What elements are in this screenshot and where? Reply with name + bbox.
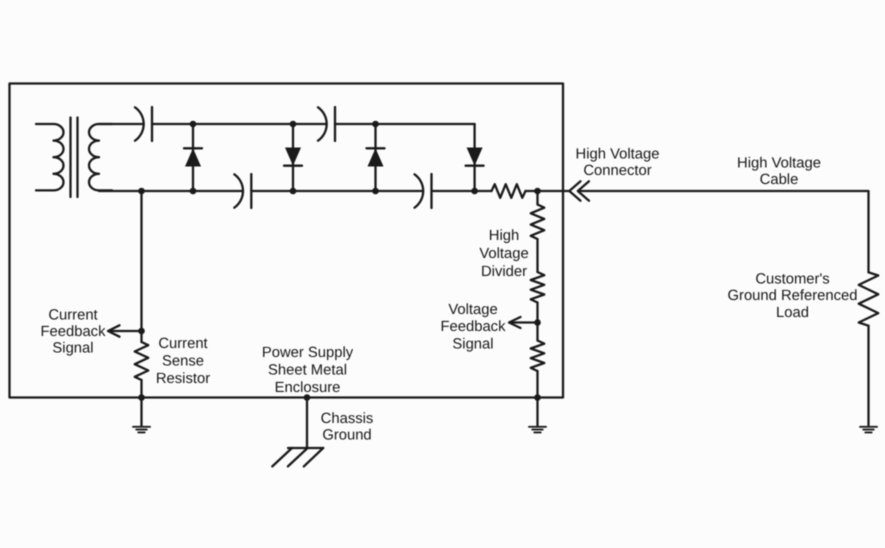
HV divider branch: top wire bbox=[536, 191, 538, 205]
svg-text:High: High bbox=[489, 228, 519, 244]
svg-text:Resistor: Resistor bbox=[156, 371, 210, 387]
wire: bottom row, secondary to capacitor C3 bbox=[99, 190, 243, 192]
junction: bottom wire at D4 bbox=[471, 188, 478, 195]
series output resistor R1 bbox=[492, 184, 526, 198]
label: High Voltage Divider bbox=[479, 228, 528, 280]
HV cable wire bbox=[581, 191, 869, 272]
wire: diode D1 branch bbox=[192, 124, 194, 191]
junction: bottom wire at D2 bbox=[290, 188, 297, 195]
label: Customer's Ground Referenced Load bbox=[728, 272, 858, 322]
power supply enclosure box bbox=[10, 84, 564, 398]
ground (signal ground below current sense) bbox=[133, 427, 150, 433]
diode D2 bbox=[284, 148, 302, 166]
label: Current Feedback Signal bbox=[41, 308, 107, 357]
capacitor C4 bbox=[415, 174, 432, 208]
capacitor C1 bbox=[135, 107, 152, 141]
label: Current Sense Resistor bbox=[156, 336, 210, 387]
svg-text:Feedback: Feedback bbox=[441, 319, 507, 335]
svg-text:Sheet Metal: Sheet Metal bbox=[268, 363, 347, 379]
label: High Voltage Connector bbox=[576, 147, 660, 180]
junction: chassis tie on enclosure bottom bbox=[304, 394, 311, 401]
junction: top wire at D3 bbox=[372, 121, 379, 128]
junction: current sense at enclosure bottom bbox=[138, 394, 145, 401]
svg-text:High Voltage: High Voltage bbox=[737, 156, 821, 172]
diode D3 bbox=[367, 148, 385, 166]
svg-text:Voltage: Voltage bbox=[448, 302, 497, 318]
junction: bottom wire at D1 bbox=[190, 188, 197, 195]
svg-text:Connector: Connector bbox=[583, 163, 651, 179]
capacitor C3 bbox=[234, 174, 251, 208]
ground (customer load earth) bbox=[860, 427, 877, 433]
current feedback arrow bbox=[108, 325, 142, 336]
transformer T1 primary winding bbox=[36, 124, 64, 190]
wire: to signal ground below enclosure (divider) bbox=[536, 398, 538, 426]
HV connector chevron 1 bbox=[569, 181, 580, 200]
junction: top wire at D2 bbox=[290, 121, 297, 128]
svg-text:Voltage: Voltage bbox=[479, 246, 528, 262]
current sense branch wire bbox=[140, 191, 142, 342]
svg-text:Cable: Cable bbox=[760, 172, 799, 188]
wire: enclosure to chassis ground bbox=[306, 398, 308, 449]
svg-text:Signal: Signal bbox=[52, 341, 93, 357]
diode D1 bbox=[184, 148, 202, 166]
label: Voltage Feedback Signal bbox=[441, 302, 507, 353]
HV divider resistor R5 bbox=[531, 341, 545, 372]
svg-text:Sense: Sense bbox=[162, 354, 204, 370]
diode D4 bbox=[466, 148, 484, 166]
wire: top row, C1 to capacitor C2 bbox=[152, 123, 327, 125]
wire: R4 to feedback node bbox=[536, 303, 538, 341]
wire: R5 to enclosure bottom bbox=[536, 371, 538, 398]
label: Chassis Ground bbox=[321, 411, 374, 444]
label: Power Supply Sheet Metal Enclosure bbox=[262, 345, 354, 396]
HV divider resistor R4 bbox=[531, 272, 545, 303]
svg-text:High Voltage: High Voltage bbox=[576, 147, 660, 163]
wire: R3 to R4 bbox=[536, 239, 538, 272]
svg-text:Customer's: Customer's bbox=[755, 272, 829, 288]
svg-text:Current: Current bbox=[48, 308, 97, 324]
chassis ground symbol bbox=[272, 448, 323, 466]
ground (signal ground below divider) bbox=[529, 427, 546, 433]
wire: to signal ground below enclosure (left) bbox=[140, 398, 142, 426]
current sense resistor R2 bbox=[135, 342, 149, 380]
wire: R1 to HV connector bbox=[526, 190, 570, 192]
svg-text:Ground: Ground bbox=[322, 428, 371, 444]
junction: top wire at D1 bbox=[190, 121, 197, 128]
svg-text:Current: Current bbox=[158, 336, 207, 352]
wire: diode D3 branch bbox=[374, 124, 376, 191]
svg-text:Signal: Signal bbox=[452, 337, 493, 353]
junction: bottom wire at current sense tap bbox=[138, 188, 145, 195]
junction: divider at enclosure bottom bbox=[534, 394, 541, 401]
HV divider resistor R3 bbox=[531, 205, 545, 240]
wire: diode D2 branch bbox=[292, 124, 294, 191]
wire: top row, C2 to corner above diode D4 bbox=[335, 123, 475, 125]
svg-text:Chassis: Chassis bbox=[321, 411, 374, 427]
wire: bottom row, C3 to capacitor C4 bbox=[251, 190, 423, 192]
wire: diode D4 branch bbox=[473, 124, 475, 191]
transformer T1 core bbox=[71, 118, 78, 198]
wire: bottom row, C4 to series resistor R1 bbox=[432, 190, 492, 192]
transformer T1 secondary winding bbox=[89, 124, 112, 190]
voltage feedback arrow bbox=[509, 317, 538, 328]
customer load resistor R6 bbox=[859, 272, 879, 325]
svg-text:Feedback: Feedback bbox=[41, 324, 107, 340]
label: High Voltage Cable bbox=[737, 156, 821, 189]
junction: current feedback node bbox=[138, 328, 145, 335]
svg-text:Power Supply: Power Supply bbox=[262, 345, 354, 361]
junction: voltage feedback node bbox=[534, 319, 541, 326]
wire: top row, secondary to capacitor C1 bbox=[99, 123, 144, 125]
HV connector chevron 2 bbox=[578, 181, 589, 200]
svg-text:Ground Referenced: Ground Referenced bbox=[728, 288, 858, 304]
wire: load to ground bbox=[867, 326, 869, 426]
capacitor C2 bbox=[318, 107, 335, 141]
svg-text:Divider: Divider bbox=[481, 264, 527, 280]
wire: R2 to enclosure bottom bbox=[140, 380, 142, 398]
junction: output node at HV divider bbox=[534, 188, 541, 195]
svg-text:Load: Load bbox=[776, 305, 809, 321]
svg-text:Enclosure: Enclosure bbox=[275, 380, 341, 396]
junction: bottom wire at D3 bbox=[372, 188, 379, 195]
